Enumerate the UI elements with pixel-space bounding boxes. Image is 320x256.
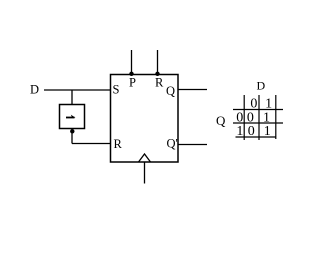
table vertical line 3 <box>275 95 277 139</box>
truth table grid <box>233 95 283 140</box>
table horizontal line 3 <box>236 136 277 138</box>
svg-text:D: D <box>257 79 266 93</box>
svg-text:1: 1 <box>264 124 271 139</box>
svg-text:1: 1 <box>236 124 243 139</box>
table horizontal line 2 <box>233 122 283 124</box>
svg-text:Q: Q <box>166 84 175 98</box>
wire reset R <box>157 50 159 75</box>
svg-text:0: 0 <box>250 97 257 112</box>
table vertical line 1 <box>243 95 245 140</box>
svg-text:0: 0 <box>236 110 243 125</box>
table horizontal line 1 <box>233 109 283 111</box>
junction dot R <box>155 72 159 76</box>
svg-text:P: P <box>129 76 136 90</box>
svg-text:Q: Q <box>216 113 226 128</box>
wire preset P <box>131 50 133 75</box>
junction dot inverter output <box>70 129 74 133</box>
wire inverter to R input <box>72 143 111 145</box>
inverter U1 box <box>60 105 85 129</box>
svg-text:R: R <box>155 76 164 90</box>
clock edge triangle <box>139 154 151 162</box>
svg-text:0: 0 <box>247 110 254 125</box>
svg-text:1: 1 <box>265 97 272 112</box>
inverter U1 arrow symbol <box>66 117 75 119</box>
svg-text:D: D <box>30 83 39 97</box>
svg-text:S: S <box>113 83 120 97</box>
svg-text:1: 1 <box>263 110 270 125</box>
wire clock <box>144 162 146 184</box>
inverter U1 arrowhead <box>71 115 76 118</box>
svg-text:R: R <box>114 137 123 151</box>
svg-text:Q': Q' <box>167 137 178 151</box>
junction dot P <box>129 72 133 76</box>
flip-flop U2 box <box>111 75 179 163</box>
wire D input <box>44 89 111 91</box>
wire Q output <box>178 89 207 91</box>
wire inverter output down <box>71 129 73 144</box>
wire Q' output <box>178 144 207 146</box>
svg-text:0: 0 <box>248 124 255 139</box>
table vertical line 2 <box>258 95 260 140</box>
wire D to inverter <box>71 90 73 105</box>
